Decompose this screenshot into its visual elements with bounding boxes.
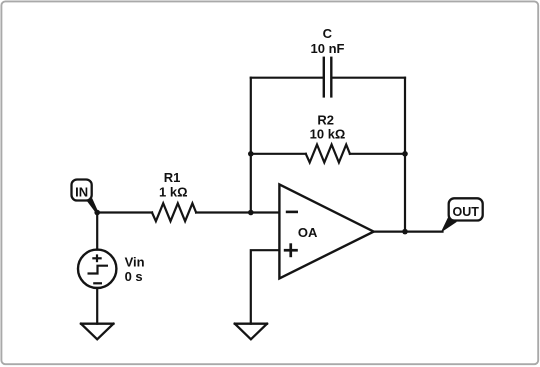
op-amp non-inverting input plus sign bbox=[284, 243, 298, 257]
wire: top left to capacitor bbox=[251, 77, 323, 79]
wire: op-amp output bbox=[374, 231, 443, 233]
wire: input node down to Vin bbox=[96, 213, 98, 250]
node: R2 right junction dot bbox=[402, 151, 408, 157]
wire: capacitor to top right bbox=[333, 77, 406, 79]
Vin plus sign bbox=[92, 254, 101, 262]
ground: below Vin bbox=[81, 324, 113, 340]
svg-text:10 kΩ: 10 kΩ bbox=[310, 126, 346, 141]
svg-text:C: C bbox=[323, 26, 333, 41]
wire: input node to R1 bbox=[97, 211, 152, 213]
Vin minus sign bbox=[93, 282, 102, 284]
node: R2 left junction dot bbox=[248, 151, 254, 157]
wire: R2 right lead bbox=[350, 153, 405, 155]
wire: R2 left lead bbox=[251, 153, 306, 155]
node: input junction dot bbox=[94, 210, 100, 216]
wire: Vin to ground bbox=[96, 288, 98, 324]
svg-text:Vin: Vin bbox=[125, 254, 145, 269]
port label OUT bbox=[441, 198, 483, 232]
op-amp inverting input minus sign bbox=[286, 211, 298, 214]
wire: R1 to op-amp inverting input bbox=[196, 211, 279, 213]
svg-text:IN: IN bbox=[75, 184, 88, 199]
op-amp U1 triangle bbox=[279, 184, 373, 278]
svg-text:10 nF: 10 nF bbox=[311, 41, 345, 56]
svg-text:OA: OA bbox=[298, 225, 318, 240]
wire: non-inverting input to ground bbox=[251, 250, 280, 324]
svg-text:1 kΩ: 1 kΩ bbox=[159, 185, 188, 200]
resistor R2 bbox=[306, 145, 350, 163]
Vin step waveform symbol bbox=[88, 266, 109, 274]
svg-text:R1: R1 bbox=[164, 170, 181, 185]
svg-text:0 s: 0 s bbox=[125, 269, 143, 284]
resistor R1 bbox=[152, 203, 196, 221]
ground: non-inverting input bbox=[235, 324, 267, 340]
voltage source Vin circle bbox=[78, 250, 116, 288]
capacitor C bbox=[324, 58, 332, 97]
node: output junction dot bbox=[402, 229, 408, 235]
wire: feedback right vertical leg bbox=[404, 78, 406, 232]
svg-text:R2: R2 bbox=[317, 112, 334, 127]
node: inverting input junction dot bbox=[248, 210, 254, 216]
wire: feedback left vertical leg bbox=[250, 78, 252, 213]
svg-text:OUT: OUT bbox=[453, 205, 480, 219]
port label IN bbox=[72, 180, 99, 213]
